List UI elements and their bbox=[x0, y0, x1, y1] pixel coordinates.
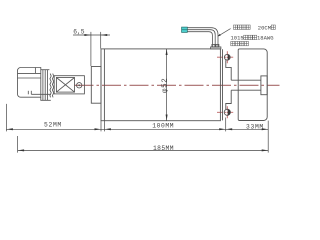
svg-text:18AWG: 18AWG bbox=[257, 35, 274, 42]
svg-text:100MM: 100MM bbox=[152, 123, 174, 130]
svg-text:185MM: 185MM bbox=[153, 145, 174, 152]
svg-text:φ52: φ52 bbox=[162, 78, 170, 93]
svg-text:6,5: 6,5 bbox=[73, 28, 85, 35]
svg-text:33MM: 33MM bbox=[246, 124, 264, 131]
svg-text:52MM: 52MM bbox=[44, 122, 62, 129]
svg-text:20CM: 20CM bbox=[258, 24, 271, 31]
svg-text:1015: 1015 bbox=[231, 35, 244, 42]
